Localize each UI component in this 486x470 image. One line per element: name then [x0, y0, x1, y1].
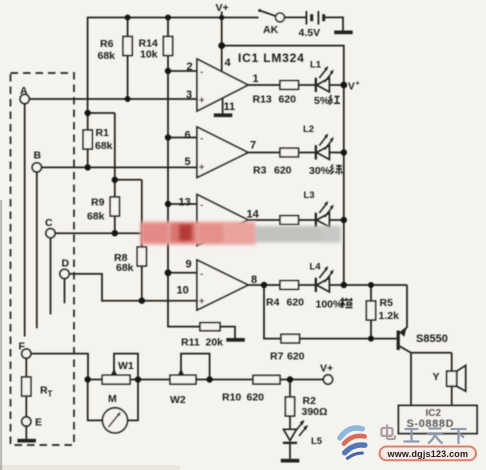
svg-text:-: - [200, 134, 203, 145]
svg-text:-: - [200, 200, 203, 211]
svg-text:C: C [45, 217, 53, 229]
svg-text:620: 620 [287, 297, 305, 309]
svg-text:T: T [48, 390, 53, 399]
svg-text:A: A [20, 85, 28, 97]
svg-text:L5: L5 [311, 436, 323, 447]
svg-text:R1: R1 [96, 127, 110, 139]
svg-text:E: E [35, 417, 42, 429]
svg-text:620: 620 [279, 94, 297, 106]
svg-text:68k: 68k [95, 140, 113, 152]
svg-text:20k: 20k [206, 337, 224, 349]
svg-text:5: 5 [185, 156, 191, 168]
svg-text:4.5V: 4.5V [299, 27, 321, 39]
svg-text:S8550: S8550 [416, 333, 448, 345]
svg-text:620: 620 [274, 165, 292, 177]
svg-text:+: + [356, 81, 360, 88]
svg-text:M: M [108, 393, 117, 405]
svg-text:68k: 68k [116, 262, 134, 274]
svg-text:68k: 68k [87, 211, 105, 223]
svg-text:W2: W2 [170, 394, 186, 406]
svg-text:B: B [34, 150, 42, 162]
svg-text:R6: R6 [100, 38, 114, 50]
svg-text:30%: 30% [309, 165, 331, 177]
svg-text:11: 11 [224, 101, 236, 113]
svg-text:6: 6 [185, 130, 191, 142]
svg-text:390Ω: 390Ω [302, 406, 328, 418]
svg-text:14: 14 [247, 209, 260, 221]
svg-text:+: + [199, 297, 205, 308]
svg-text:1: 1 [253, 73, 259, 85]
svg-text:10: 10 [177, 285, 189, 297]
svg-text:AK: AK [263, 24, 279, 36]
svg-text:www.dgjs123.com: www.dgjs123.com [387, 449, 469, 459]
svg-text:10k: 10k [140, 49, 158, 61]
svg-text:L4: L4 [310, 262, 322, 273]
svg-text:620: 620 [247, 392, 265, 404]
svg-text:V+: V+ [320, 363, 333, 375]
svg-text:+: + [199, 163, 205, 174]
svg-text:R5: R5 [380, 297, 394, 309]
svg-text:68k: 68k [98, 50, 116, 62]
svg-text:IC1 LM324: IC1 LM324 [238, 51, 305, 65]
svg-text:V+: V+ [216, 2, 229, 14]
svg-text:2: 2 [187, 61, 193, 73]
svg-text:L2: L2 [303, 124, 314, 135]
svg-text:R7: R7 [270, 351, 284, 363]
svg-text:-: - [200, 269, 203, 280]
svg-text:8: 8 [251, 274, 257, 286]
svg-text:100%: 100% [316, 299, 344, 311]
svg-text:V: V [348, 82, 355, 93]
svg-text:R11: R11 [181, 337, 200, 349]
svg-text:R4: R4 [266, 297, 280, 309]
svg-text:D: D [62, 258, 70, 270]
svg-text:R10: R10 [222, 392, 241, 404]
svg-text:13: 13 [179, 197, 191, 209]
svg-text:W1: W1 [118, 360, 134, 372]
svg-text:+: + [199, 96, 205, 107]
svg-text:F: F [19, 341, 26, 353]
svg-text:7: 7 [250, 140, 256, 152]
svg-text:Y: Y [433, 371, 440, 383]
svg-text:4: 4 [225, 57, 232, 69]
svg-text:L1: L1 [310, 60, 322, 71]
svg-text:5%: 5% [314, 95, 330, 107]
svg-text:-: - [200, 67, 203, 78]
svg-text:3: 3 [186, 89, 192, 101]
svg-text:R13: R13 [253, 94, 272, 106]
svg-text:L3: L3 [304, 190, 315, 201]
svg-text:620: 620 [287, 351, 305, 363]
svg-text:9: 9 [186, 259, 192, 271]
svg-text:R9: R9 [91, 197, 105, 209]
svg-text:R3: R3 [253, 165, 267, 177]
svg-text:1.2k: 1.2k [379, 310, 400, 322]
